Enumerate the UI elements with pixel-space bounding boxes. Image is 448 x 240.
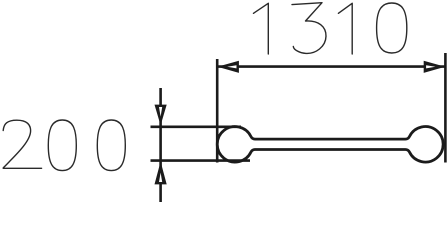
dimension text 1310 [254,3,407,54]
extension line lower (for 200) [151,159,251,162]
dimension line 1310 [218,65,446,68]
dimension line 200 (vertical) [159,88,162,202]
dimension text 200 [3,120,125,171]
arrowhead left of 1310 [217,61,239,73]
arrowhead right of 1310 [424,61,446,73]
extension line upper (for 200) [151,126,242,129]
arrowhead top of 200 (pointing down) [155,105,167,126]
extension line right (for 1310) [444,53,447,163]
extension line left (for 1310) [216,59,219,163]
part outline: bar with rosette ends [217,127,443,163]
arrowhead bottom of 200 (pointing up) [155,162,167,185]
